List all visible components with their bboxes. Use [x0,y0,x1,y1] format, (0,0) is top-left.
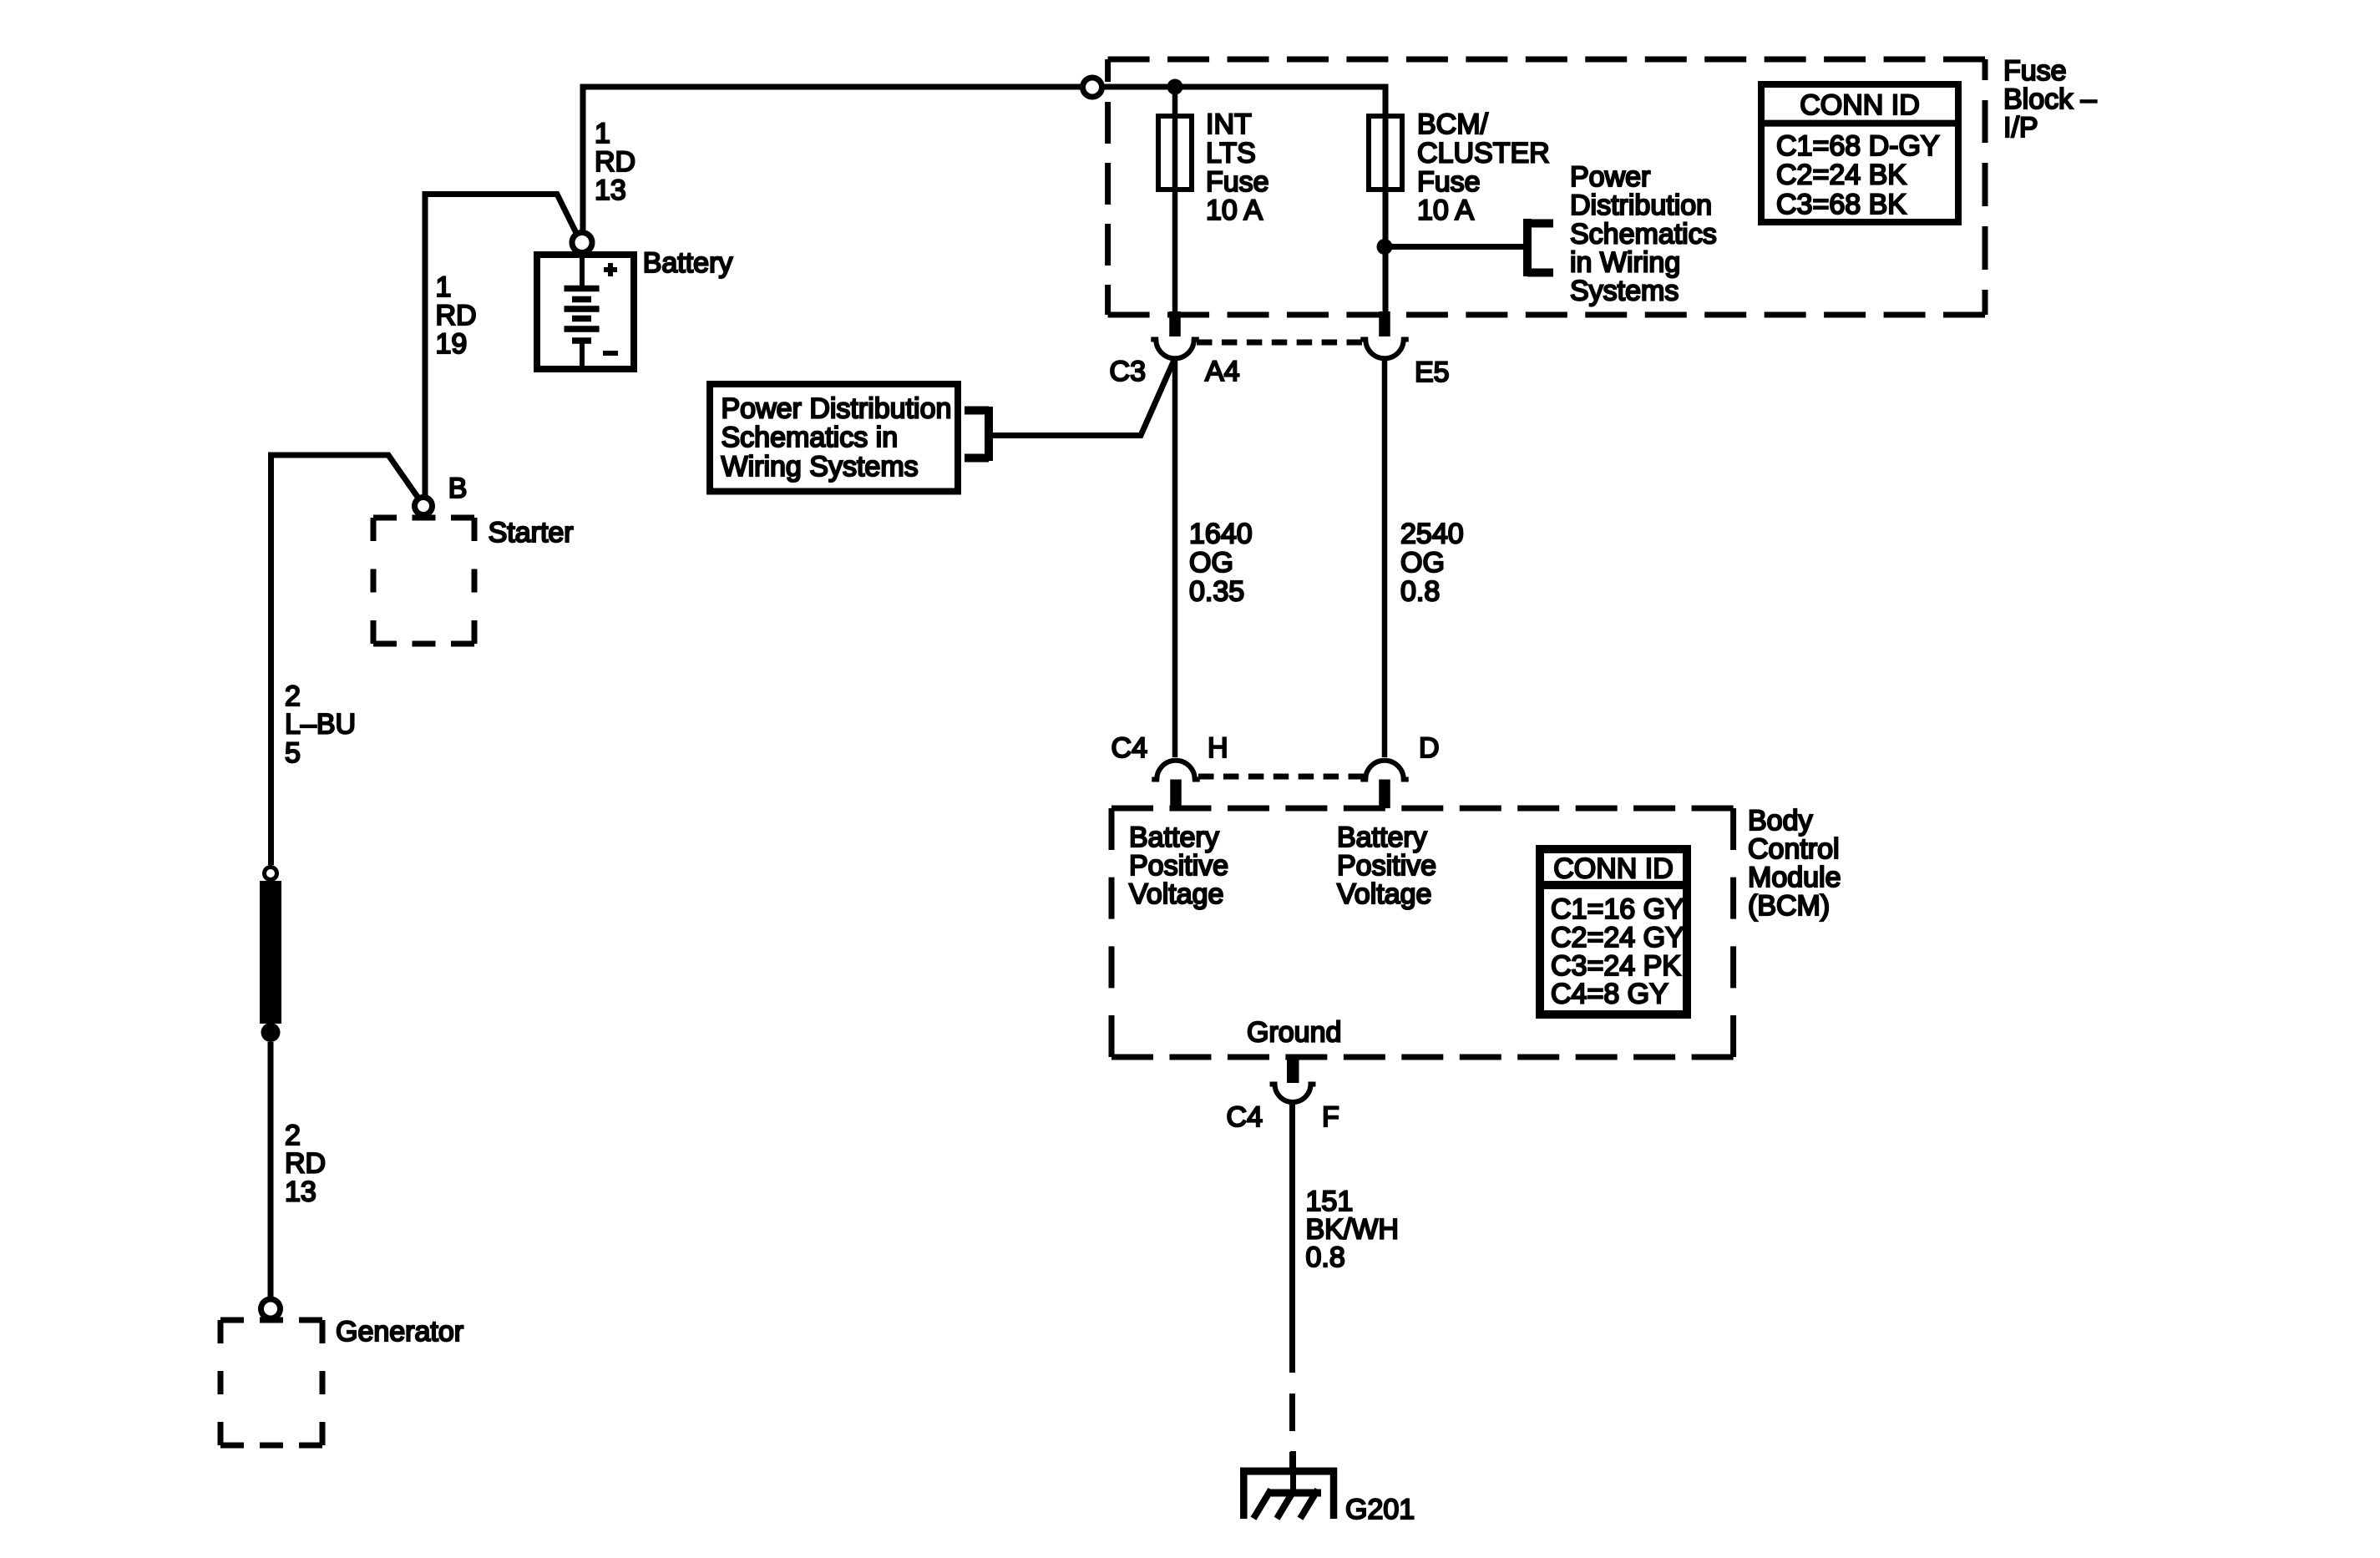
svg-text:5: 5 [285,737,301,769]
svg-text:Distribution: Distribution [1570,190,1712,221]
svg-text:1640: 1640 [1189,518,1253,550]
svg-text:C1=68 D-GY: C1=68 D-GY [1776,130,1940,162]
svg-text:Body: Body [1748,805,1813,837]
svg-text:Control: Control [1748,833,1840,865]
svg-text:2: 2 [285,1120,301,1151]
svg-text:Fuse: Fuse [1417,166,1481,198]
svg-text:Fuse: Fuse [2003,55,2067,87]
svg-text:C4: C4 [1112,732,1147,764]
svg-text:(BCM): (BCM) [1748,890,1830,922]
svg-text:RD: RD [595,146,636,178]
svg-text:F: F [1322,1101,1339,1133]
svg-text:LTS: LTS [1206,137,1256,169]
svg-text:2540: 2540 [1400,518,1464,550]
svg-text:Schematics: Schematics [1570,219,1717,250]
svg-text:1: 1 [595,118,610,149]
svg-text:Positive: Positive [1129,850,1228,882]
svg-text:C3=24 PK: C3=24 PK [1551,950,1681,982]
svg-text:0.8: 0.8 [1306,1242,1345,1273]
svg-text:E5: E5 [1415,357,1450,388]
svg-text:I/P: I/P [2003,112,2038,144]
svg-text:Generator: Generator [336,1316,463,1348]
svg-text:H: H [1208,732,1228,764]
svg-text:Systems: Systems [1570,276,1679,307]
svg-text:19: 19 [436,328,468,360]
svg-text:C4=8 GY: C4=8 GY [1551,979,1669,1010]
svg-text:C3: C3 [1110,356,1146,387]
svg-text:A4: A4 [1205,356,1240,387]
svg-text:CLUSTER: CLUSTER [1417,137,1550,169]
svg-text:Starter: Starter [489,517,574,549]
svg-text:Module: Module [1748,862,1841,893]
svg-text:RD: RD [285,1148,326,1180]
svg-text:C2=24 BK: C2=24 BK [1776,159,1907,191]
svg-text:Wiring Systems: Wiring Systems [722,451,919,483]
svg-text:BK/WH: BK/WH [1306,1214,1399,1246]
svg-text:G201: G201 [1345,1494,1415,1525]
svg-text:L–BU: L–BU [285,709,356,741]
svg-text:Schematics in: Schematics in [722,422,899,453]
svg-text:0.35: 0.35 [1189,576,1244,608]
svg-text:C1=16 GY: C1=16 GY [1551,893,1684,925]
svg-text:Battery: Battery [643,247,733,279]
svg-text:Power: Power [1570,161,1650,193]
svg-text:Block –: Block – [2003,83,2097,115]
svg-text:CONN ID: CONN ID [1553,853,1674,885]
svg-text:151: 151 [1306,1186,1354,1217]
svg-text:OG: OG [1400,547,1445,579]
svg-text:CONN ID: CONN ID [1800,89,1920,121]
svg-text:Fuse: Fuse [1206,166,1269,198]
svg-text:C2=24 GY: C2=24 GY [1551,922,1684,954]
svg-text:2: 2 [285,680,301,712]
svg-text:Battery: Battery [1129,822,1219,853]
svg-text:D: D [1419,732,1440,764]
svg-text:Battery: Battery [1337,822,1427,853]
svg-text:13: 13 [285,1176,316,1208]
svg-text:10 A: 10 A [1417,195,1474,226]
svg-text:C4: C4 [1227,1101,1263,1133]
svg-text:Positive: Positive [1337,850,1436,882]
svg-text:BCM/: BCM/ [1417,109,1489,140]
svg-text:Voltage: Voltage [1129,878,1223,910]
svg-text:Ground: Ground [1247,1017,1341,1049]
svg-text:RD: RD [436,300,477,331]
svg-text:OG: OG [1189,547,1233,579]
svg-text:Voltage: Voltage [1337,878,1431,910]
svg-text:B: B [448,473,468,504]
svg-text:Power Distribution: Power Distribution [722,393,952,425]
svg-text:0.8: 0.8 [1400,576,1440,608]
svg-text:C3=68 BK: C3=68 BK [1776,189,1907,220]
svg-text:in Wiring: in Wiring [1570,247,1680,279]
svg-text:13: 13 [595,175,626,206]
svg-text:10 A: 10 A [1206,195,1263,226]
svg-text:INT: INT [1206,109,1252,140]
svg-text:1: 1 [436,271,452,303]
